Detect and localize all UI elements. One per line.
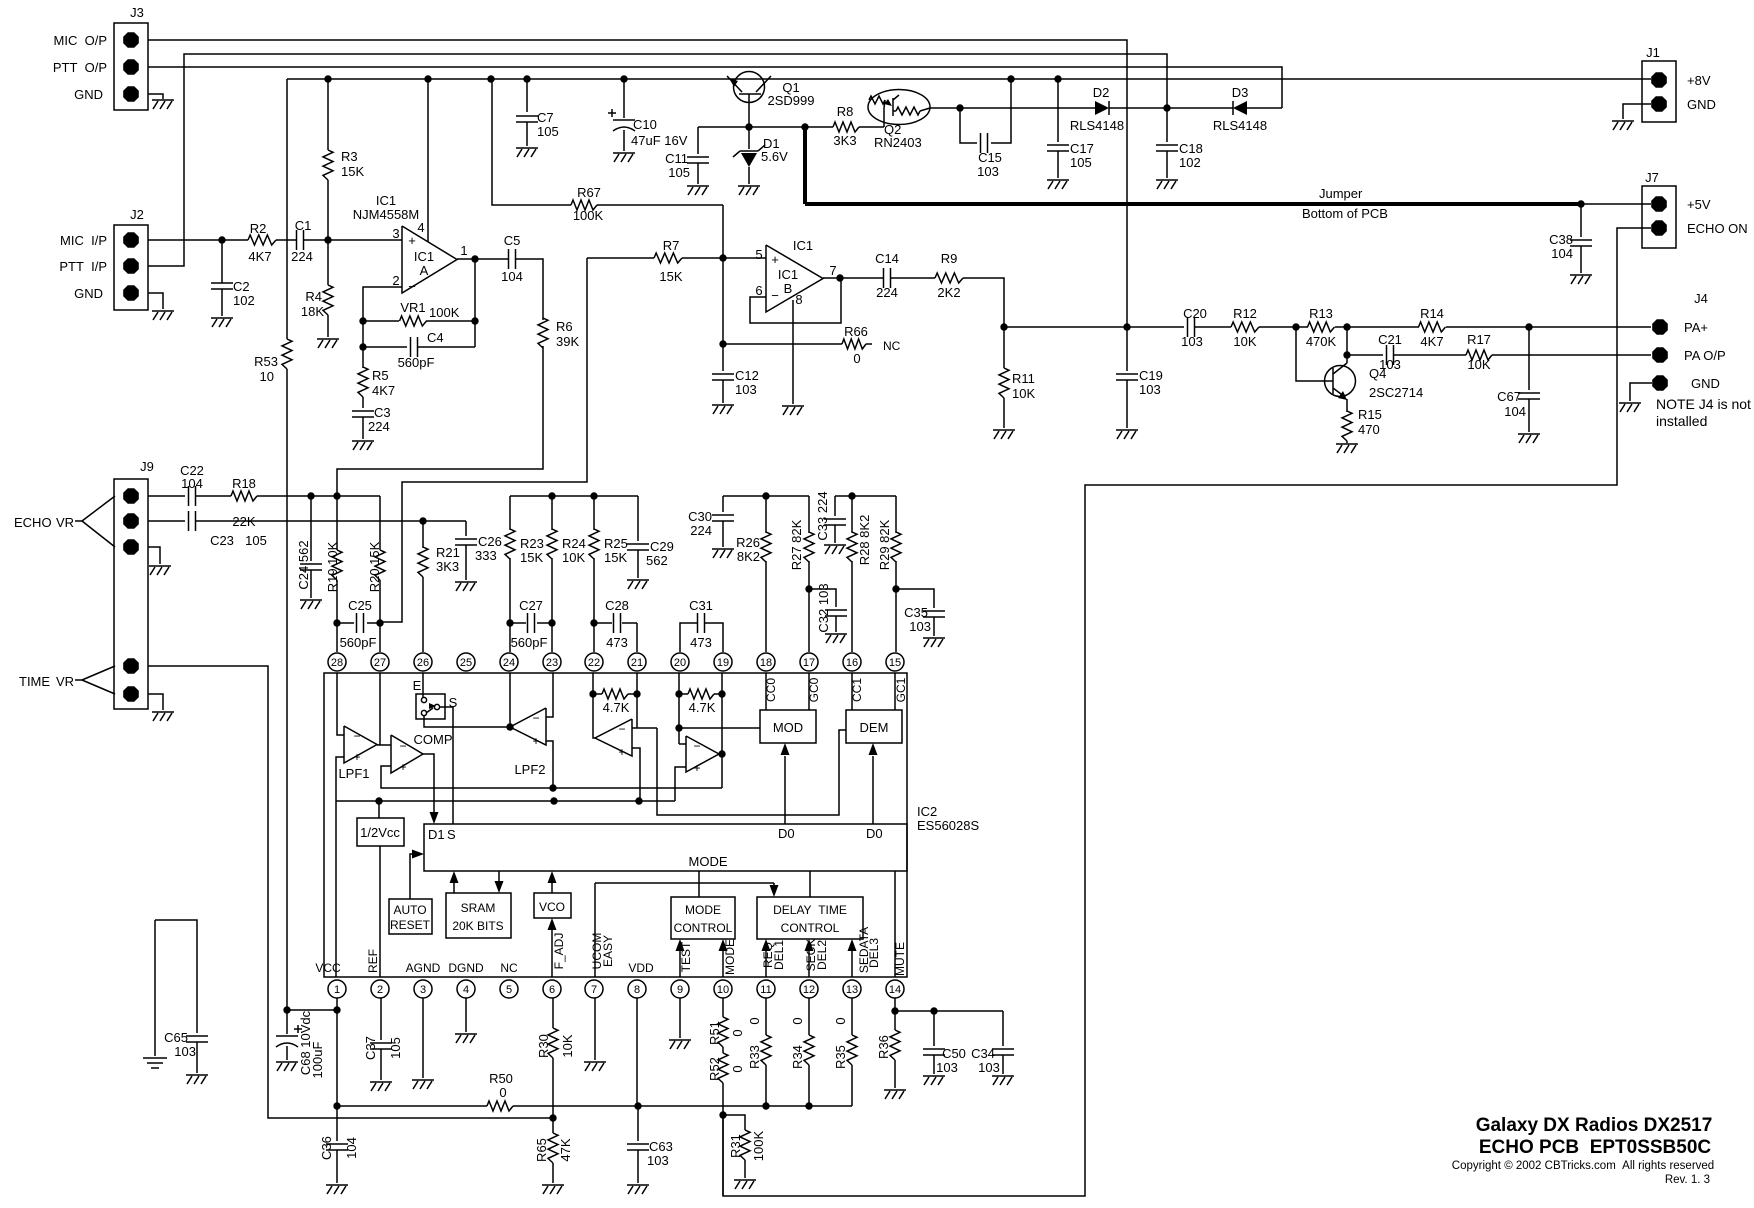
capacitor C23 (189, 511, 267, 548)
svg-text:8K2: 8K2 (737, 549, 760, 564)
wire R67 to IC1B + node (722, 205, 724, 258)
svg-text:R21: R21 (436, 545, 460, 560)
capacitor C21 (1378, 332, 1402, 372)
block 1/2Vcc (357, 818, 404, 846)
svg-text:IC1: IC1 (778, 267, 798, 282)
ground C7 (516, 148, 538, 157)
wire J9 GND pin (148, 547, 160, 564)
svg-text:R7: R7 (663, 238, 680, 253)
svg-text:470K: 470K (1306, 334, 1337, 349)
svg-text:24: 24 (503, 657, 515, 669)
pin 21 circle (628, 653, 646, 671)
wire F_ADJ arrow into VCO (548, 918, 567, 977)
svg-text:ES56028S: ES56028S (917, 818, 979, 833)
svg-text:J7: J7 (1645, 170, 1659, 185)
block MODE bus (424, 824, 907, 871)
resistor R19 (325, 496, 342, 623)
connector J3 (53, 5, 148, 110)
IC2 box outline (324, 673, 907, 977)
svg-text:AGND: AGND (406, 961, 441, 975)
ground C19 (1116, 430, 1138, 439)
svg-text:R66: R66 (844, 324, 868, 339)
svg-text:−: − (408, 279, 416, 294)
svg-text:16: 16 (846, 657, 858, 669)
svg-text:R35: R35 (833, 1045, 848, 1069)
wire pin14 MUTE (893, 871, 907, 977)
block VCO (534, 893, 571, 918)
ground J2 (152, 311, 174, 320)
resistor R34 (790, 998, 814, 1106)
wire IC1A output node (457, 255, 508, 262)
capacitor C32 (809, 583, 847, 632)
ground C11 (687, 186, 709, 195)
svg-text:+5V: +5V (1687, 197, 1711, 212)
wire SRAM down arrow (495, 871, 504, 893)
svg-text:103: 103 (1181, 334, 1203, 349)
zener diode D1 5.6V (733, 127, 788, 184)
wire MODE CONTROL to bus (698, 871, 700, 897)
ground C17 (1047, 180, 1069, 189)
svg-text:103: 103 (735, 382, 757, 397)
capacitor C7 (516, 79, 559, 146)
note J4 not installed (1656, 396, 1751, 429)
svg-text:MODE: MODE (723, 939, 737, 975)
capacitor C18 (1156, 108, 1203, 178)
svg-text:18: 18 (760, 657, 772, 669)
wire pin19 lead to A2 output (718, 694, 725, 758)
ground C50 (923, 1076, 945, 1085)
pin 25 circle (457, 653, 475, 671)
pin 24 circle (500, 653, 518, 671)
resistor R24 (547, 496, 586, 623)
svg-text:R18: R18 (232, 476, 256, 491)
svg-text:C29: C29 (650, 539, 674, 554)
label ECHO VR with chevron (14, 496, 115, 547)
svg-text:MODE: MODE (689, 854, 728, 869)
svg-text:R67: R67 (577, 185, 601, 200)
wire pin1 VCC column (333, 998, 340, 1110)
wire pin2 REF to C37 (380, 998, 382, 1040)
wire PTT I/P net (J2 pin2 to D2/D3 junction) (148, 54, 1167, 266)
svg-text:R52: R52 (707, 1057, 722, 1081)
svg-text:EASY: EASY (601, 935, 615, 967)
svg-text:5: 5 (506, 984, 512, 996)
svg-text:104: 104 (344, 1137, 359, 1159)
svg-text:103: 103 (1139, 382, 1161, 397)
svg-text:+: + (408, 233, 416, 248)
svg-text:GND: GND (74, 286, 103, 301)
svg-text:R36: R36 (876, 1035, 891, 1059)
svg-text:C4: C4 (427, 330, 444, 345)
svg-text:18K: 18K (301, 304, 324, 319)
svg-text:C21: C21 (1378, 332, 1402, 347)
connector J2 (59, 207, 148, 310)
resistor R15 (1342, 407, 1382, 443)
svg-text:MIC O/P: MIC O/P (54, 33, 107, 48)
ground C29 (627, 580, 649, 589)
svg-text:Bottom of PCB: Bottom of PCB (1302, 206, 1388, 221)
svg-text:2: 2 (392, 273, 399, 288)
svg-text:103: 103 (978, 1060, 1000, 1075)
wire filter rail R23-C29 (510, 492, 638, 499)
svg-text:333: 333 (475, 548, 497, 563)
ground C65 right (186, 1075, 208, 1084)
wire pin24 lead (506, 673, 513, 731)
wire ECHO ON to MODE network (723, 228, 1651, 1196)
svg-text:CONTROL: CONTROL (674, 921, 733, 935)
ground R11 (993, 430, 1015, 439)
svg-text:105: 105 (537, 124, 559, 139)
svg-text:17: 17 (803, 657, 815, 669)
svg-text:MUTE: MUTE (893, 942, 907, 976)
svg-text:4.7K: 4.7K (603, 700, 630, 715)
svg-text:1/2Vcc: 1/2Vcc (360, 825, 400, 840)
svg-text:R29 82K: R29 82K (877, 519, 892, 570)
ground C68 (276, 1062, 298, 1071)
svg-text:Q4: Q4 (1369, 366, 1386, 381)
pin 5 circle (500, 980, 518, 998)
svg-text:−: − (771, 288, 779, 303)
svg-text:R3: R3 (341, 149, 358, 164)
svg-text:10K: 10K (1012, 386, 1035, 401)
wire C23 to C26 (196, 517, 466, 524)
ground R15 (1336, 444, 1358, 453)
resistor R65 (534, 1118, 573, 1183)
capacitor C22 (180, 463, 204, 506)
svg-text:+: + (532, 734, 539, 748)
ground C26 (455, 582, 477, 591)
ground C38 (1570, 275, 1592, 284)
wire pin3 AGND (422, 998, 424, 1078)
svg-text:GC1: GC1 (894, 677, 908, 702)
resistor R31 (723, 1115, 766, 1178)
resistor R29 (877, 496, 901, 652)
wire PA O/P line (1343, 327, 1383, 359)
svg-text:R13: R13 (1309, 306, 1333, 321)
svg-text:LPF1: LPF1 (338, 766, 369, 781)
ground C10 (613, 153, 635, 162)
wire pins 24-21 leads (510, 623, 637, 652)
transistor Q1 2SD999 (727, 72, 814, 128)
svg-text:DGND: DGND (448, 961, 484, 975)
svg-text:R8: R8 (837, 104, 854, 119)
arrow into D1 (430, 812, 439, 824)
svg-text:GC0: GC0 (807, 677, 821, 702)
ground R4 (317, 339, 339, 348)
svg-text:1: 1 (334, 984, 340, 996)
wire A1 - to DEM loop (657, 728, 846, 815)
wire VCC to C68 (283, 1006, 337, 1034)
svg-text:C50: C50 (942, 1046, 966, 1061)
op-amp IC1 A (353, 193, 468, 294)
svg-text:NOTE J4 is not: NOTE J4 is not (1656, 396, 1751, 412)
ground C67 (1518, 434, 1540, 443)
svg-text:−: − (353, 729, 360, 743)
IC2 label (917, 804, 979, 833)
svg-text:+8V: +8V (1687, 73, 1711, 88)
wire pin4 DGND (465, 998, 467, 1032)
transistor Q4 2SC2714 (1296, 327, 1423, 412)
svg-text:C14: C14 (875, 251, 899, 266)
resistor R53 (254, 339, 292, 1010)
svg-text:4.7K: 4.7K (689, 700, 716, 715)
svg-text:NC: NC (883, 339, 901, 353)
svg-text:+: + (353, 750, 360, 764)
pin 27 circle (371, 653, 389, 671)
wire 1/2Vcc bottom to pin2 REF (379, 846, 381, 977)
wire IC1B feedback loop pin6 (750, 278, 841, 323)
capacitor C29 (627, 496, 674, 578)
svg-text:473: 473 (690, 635, 712, 650)
svg-text:3K3: 3K3 (436, 559, 459, 574)
svg-text:SRAM: SRAM (461, 901, 496, 915)
svg-text:NJM4558M: NJM4558M (353, 207, 419, 222)
op-amp internal A2 (points right) (686, 736, 719, 775)
svg-text:104: 104 (1551, 246, 1573, 261)
svg-text:C32 103: C32 103 (816, 583, 831, 632)
pin 2 circle (371, 980, 389, 998)
svg-text:0: 0 (790, 1017, 805, 1024)
svg-text:C65: C65 (164, 1030, 188, 1045)
svg-text:19: 19 (717, 657, 729, 669)
resistor R14 (1419, 306, 1652, 349)
ground J1 (1612, 121, 1634, 130)
wire pins 28/27 leads (337, 623, 380, 652)
svg-text:103: 103 (647, 1153, 669, 1168)
svg-text:27: 27 (374, 657, 386, 669)
wire pin23 to LPF2 - (546, 673, 553, 717)
svg-text:103: 103 (977, 164, 999, 179)
pin 15 circle (886, 653, 904, 671)
svg-text:VR: VR (56, 674, 74, 689)
wire COMP + loop line A (381, 766, 722, 792)
svg-text:2SD999: 2SD999 (768, 93, 815, 108)
svg-text:CONTROL: CONTROL (781, 921, 840, 935)
resistor R9 (891, 251, 963, 300)
svg-text:0: 0 (730, 1029, 745, 1036)
resistor 4.7K (pins 20-19) (675, 673, 725, 715)
svg-text:473: 473 (606, 635, 628, 650)
wire SRAM up arrow (450, 871, 459, 893)
svg-text:105: 105 (1070, 155, 1092, 170)
svg-text:TEST: TEST (679, 941, 693, 972)
wire MODE line to DELAY TIME CONTROL (595, 883, 779, 897)
svg-text:C10: C10 (633, 117, 657, 132)
pin 7 circle (585, 980, 603, 998)
wire IC1A pin4 to +8V rail (427, 79, 429, 242)
resistor R25 (589, 496, 628, 623)
svg-text:−: − (399, 739, 406, 753)
svg-text:15K: 15K (520, 550, 543, 565)
svg-text:ECHO: ECHO (14, 515, 52, 530)
svg-text:C67: C67 (1497, 389, 1521, 404)
ground pin3 (412, 1080, 434, 1089)
pin 1 circle (328, 980, 346, 998)
ground C33 (824, 545, 846, 554)
svg-text:23: 23 (546, 657, 558, 669)
resistor R30 (536, 1028, 575, 1122)
block MODE CONTROL (671, 897, 735, 939)
svg-text:PA+: PA+ (1684, 320, 1708, 335)
resistor R33 (747, 998, 771, 1106)
pin 6 circle (543, 980, 561, 998)
capacitor C24 (296, 496, 322, 598)
wire R6 to R19/R20 node (337, 346, 543, 496)
wire pin10 to R51 R52 (722, 998, 724, 1017)
svg-text:ECHO ON: ECHO ON (1687, 221, 1748, 236)
svg-text:15K: 15K (604, 550, 627, 565)
wire VDD/VCC rail R50 (337, 1105, 487, 1107)
svg-text:E: E (413, 678, 422, 693)
svg-text:R34: R34 (790, 1045, 805, 1069)
svg-text:C1: C1 (295, 218, 312, 233)
capacitor C4 (359, 321, 475, 370)
diode D2 RLS4148 (1070, 85, 1233, 133)
svg-text:224: 224 (690, 523, 712, 538)
wire pin17 lead GC0 (807, 673, 821, 710)
pin 17 circle (800, 653, 818, 671)
svg-text:105: 105 (668, 165, 690, 180)
pin 13 circle (843, 980, 861, 998)
capacitor C3 (352, 405, 391, 439)
pin name labels bottom (315, 949, 654, 975)
resistor R18 (231, 476, 257, 529)
capacitor C31 (680, 598, 723, 652)
capacitor C17 (1047, 79, 1094, 178)
svg-text:F_ADJ: F_ADJ (552, 933, 566, 970)
wire pin10 MODE arrow (719, 939, 738, 977)
svg-text:R2: R2 (250, 221, 267, 236)
pin 10 circle (714, 980, 732, 998)
diode D3 RLS4148 (1213, 85, 1282, 133)
svg-text:3K3: 3K3 (833, 133, 856, 148)
svg-text:R4: R4 (305, 289, 322, 304)
wire pin27 lead to LPF1 output / COMP - (377, 673, 391, 745)
capacitor C5 (501, 233, 523, 284)
connector J4 pins (not installed) (1652, 291, 1725, 391)
svg-text:4K7: 4K7 (1420, 334, 1443, 349)
pin 23 circle (543, 653, 561, 671)
svg-text:D2: D2 (1093, 85, 1110, 100)
connector J9 (114, 459, 154, 709)
connector J7 (1642, 170, 1748, 248)
pin 19 circle (714, 653, 732, 671)
resistor R4 (301, 240, 333, 337)
svg-text:C36: C36 (319, 1136, 334, 1160)
svg-text:100K: 100K (429, 305, 460, 320)
svg-text:J1: J1 (1646, 45, 1660, 60)
revision (1665, 1174, 1710, 1186)
resistor R21 (418, 521, 460, 652)
op-amp COMP (391, 732, 453, 774)
resistor R3 (323, 79, 364, 240)
svg-text:2K2: 2K2 (937, 285, 960, 300)
ground C12 (712, 405, 734, 414)
svg-text:0: 0 (833, 1017, 848, 1024)
ground pin8 (782, 406, 804, 415)
svg-text:7: 7 (591, 984, 597, 996)
svg-text:C38: C38 (1549, 232, 1573, 247)
wire DELAY to bus (809, 871, 811, 897)
pin 4 circle (457, 980, 475, 998)
ground C32 (825, 634, 847, 643)
svg-text:10K: 10K (1467, 357, 1490, 372)
svg-text:104: 104 (181, 476, 203, 491)
svg-text:C19: C19 (1139, 368, 1163, 383)
capacitor C14 (875, 251, 899, 300)
wire ECHO VR pin1 (148, 495, 185, 497)
svg-text:10: 10 (260, 369, 274, 384)
pin 12 circle (800, 980, 818, 998)
svg-text:GND: GND (74, 87, 103, 102)
svg-text:5.6V: 5.6V (761, 149, 788, 164)
wire pin7 to ground (594, 998, 596, 1060)
svg-text:+: + (399, 760, 406, 774)
resistor R23 (505, 496, 544, 623)
svg-text:5: 5 (755, 247, 762, 262)
svg-text:6: 6 (755, 283, 762, 298)
capacitor C20 (1181, 306, 1207, 349)
resistor R35 (833, 998, 857, 1106)
svg-text:25: 25 (460, 657, 472, 669)
ground R65 (542, 1185, 564, 1194)
svg-text:C11: C11 (665, 151, 688, 166)
svg-text:D0: D0 (778, 826, 795, 841)
wire AUTO RESET to bus (410, 850, 424, 900)
svg-text:−: − (693, 739, 700, 753)
svg-text:2SC2714: 2SC2714 (1369, 385, 1423, 400)
svg-text:C26: C26 (478, 534, 502, 549)
wire IC1A pin2 to VR1 node (363, 287, 402, 321)
wire LPF2 + to line A (546, 741, 553, 788)
block MOD (760, 710, 816, 743)
svg-text:9: 9 (677, 984, 683, 996)
svg-text:VR1: VR1 (400, 300, 425, 315)
wire pin15 lead GC1 (894, 673, 908, 710)
svg-text:3: 3 (392, 226, 399, 241)
ground C18 (1156, 180, 1178, 189)
pin 20 circle (671, 653, 689, 671)
title Galaxy DX Radios DX2517 (1476, 1115, 1713, 1136)
switch E/S (413, 678, 458, 719)
svg-text:Galaxy DX Radios DX2517: Galaxy DX Radios DX2517 (1476, 1115, 1713, 1136)
svg-text:−: − (532, 711, 539, 725)
wire TIME VR wiper to F_ADJ line (148, 666, 553, 1118)
svg-text:224: 224 (291, 249, 313, 264)
svg-text:20K BITS: 20K BITS (452, 919, 503, 933)
svg-text:22: 22 (588, 657, 600, 669)
pin 22 circle (585, 653, 603, 671)
wire A1 + to line B (632, 748, 640, 801)
wire Q2 output to D2 (930, 104, 1095, 111)
wire R9 to audio node (963, 278, 1004, 327)
svg-text:560pF: 560pF (511, 635, 548, 650)
svg-text:R24: R24 (562, 536, 586, 551)
ground J9 time (152, 712, 174, 721)
svg-text:J3: J3 (130, 5, 144, 20)
svg-text:R33: R33 (747, 1045, 762, 1069)
svg-text:RESET: RESET (390, 918, 431, 932)
wire pin8 VDD to rail (636, 998, 638, 1106)
capacitor C33 (815, 491, 846, 543)
svg-text:C20: C20 (1183, 306, 1207, 321)
svg-text:7: 7 (829, 263, 836, 278)
wire COMP output to D1 arrow (423, 754, 434, 812)
wire IC1B + node down (719, 258, 726, 371)
wire J1 GND (1623, 104, 1651, 119)
svg-text:560pF: 560pF (398, 355, 435, 370)
resistor R26 (736, 496, 771, 652)
